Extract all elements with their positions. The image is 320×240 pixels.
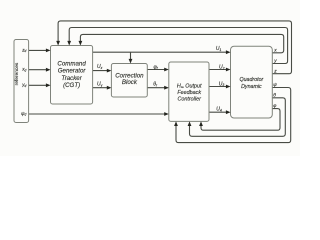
svg-text:y: y xyxy=(273,59,277,64)
svg-text:θ: θ xyxy=(273,92,276,98)
svg-text:(CGT): (CGT) xyxy=(63,82,80,89)
svg-text:ψd: ψd xyxy=(21,111,26,117)
svg-text:references: references xyxy=(14,62,20,85)
svg-text:Tracker: Tracker xyxy=(61,75,82,82)
svg-text:Controller: Controller xyxy=(178,97,202,103)
svg-text:Generator: Generator xyxy=(58,68,87,75)
svg-text:φ: φ xyxy=(273,104,276,109)
svg-text:Command: Command xyxy=(57,61,86,68)
svg-text:yd: yd xyxy=(21,82,26,88)
svg-text:Block: Block xyxy=(122,79,138,86)
svg-text:x: x xyxy=(273,49,277,54)
svg-text:z: z xyxy=(273,70,277,75)
svg-text:xd: xd xyxy=(21,67,26,73)
svg-text:Dynamic: Dynamic xyxy=(241,84,262,90)
svg-text:Quadrotor: Quadrotor xyxy=(239,77,263,83)
svg-text:zd: zd xyxy=(21,47,26,53)
svg-text:Feedback: Feedback xyxy=(177,90,201,96)
svg-text:ψ: ψ xyxy=(273,82,277,88)
svg-text:H∞ Output: H∞ Output xyxy=(177,83,202,89)
